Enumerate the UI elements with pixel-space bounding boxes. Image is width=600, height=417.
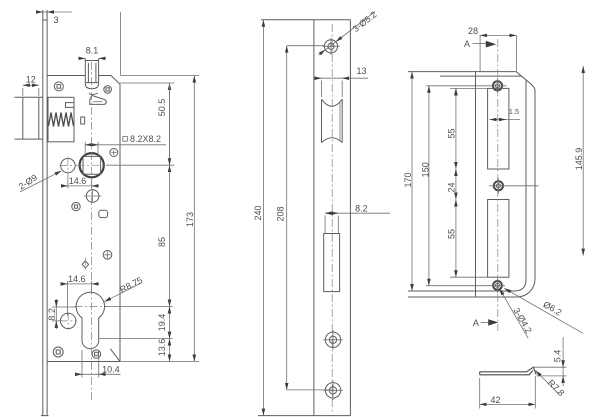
svg-text:50.5: 50.5 xyxy=(157,99,167,117)
svg-text:8.2X8.2: 8.2X8.2 xyxy=(130,134,161,144)
svg-text:150: 150 xyxy=(420,162,430,177)
svg-text:42: 42 xyxy=(490,395,500,405)
svg-text:208: 208 xyxy=(275,206,285,221)
svg-text:24: 24 xyxy=(447,182,457,192)
svg-text:240: 240 xyxy=(253,205,263,220)
svg-text:55: 55 xyxy=(447,128,457,138)
svg-text:8.2: 8.2 xyxy=(355,204,368,214)
svg-text:12: 12 xyxy=(26,74,36,84)
svg-text:13.6: 13.6 xyxy=(157,339,167,357)
svg-text:A: A xyxy=(473,318,479,328)
svg-text:28: 28 xyxy=(468,26,478,36)
svg-text:173: 173 xyxy=(185,212,195,227)
svg-text:85: 85 xyxy=(157,237,167,247)
svg-text:1.5: 1.5 xyxy=(509,107,519,116)
svg-text:8.2: 8.2 xyxy=(47,308,57,321)
svg-text:5.4: 5.4 xyxy=(553,350,563,363)
svg-text:A: A xyxy=(464,39,470,49)
svg-text:55: 55 xyxy=(447,229,457,239)
svg-text:3: 3 xyxy=(53,15,58,25)
svg-text:14.6: 14.6 xyxy=(69,176,87,186)
svg-text:14.6: 14.6 xyxy=(68,274,86,284)
svg-text:8.1: 8.1 xyxy=(86,46,99,56)
svg-text:145.9: 145.9 xyxy=(574,148,584,171)
svg-text:19.4: 19.4 xyxy=(157,314,167,332)
svg-text:170: 170 xyxy=(403,172,413,187)
svg-text:13: 13 xyxy=(356,66,366,76)
svg-text:10.4: 10.4 xyxy=(102,365,120,375)
